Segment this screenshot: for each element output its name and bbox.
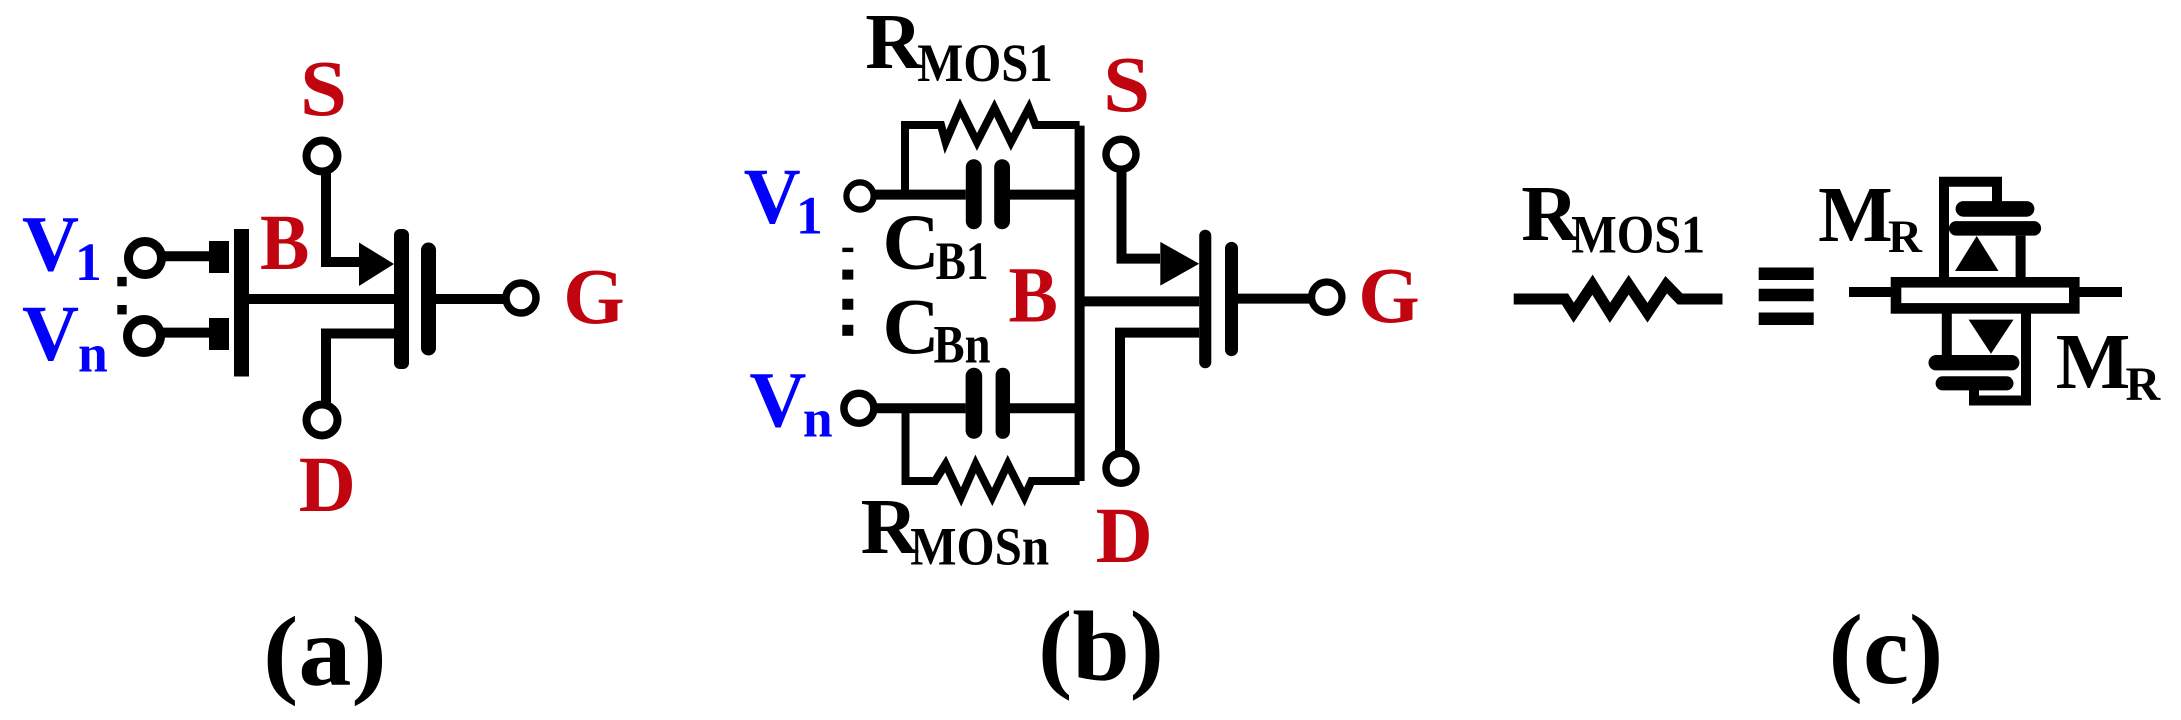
svg-text:G: G: [1358, 253, 1419, 340]
svg-text:D: D: [299, 442, 356, 529]
svg-text:V: V: [749, 358, 806, 445]
svg-text:C: C: [883, 284, 940, 371]
svg-text:MOSn: MOSn: [910, 517, 1049, 577]
svg-text:M: M: [2056, 319, 2131, 406]
svg-text:1: 1: [75, 232, 102, 292]
svg-text:MOS1: MOS1: [917, 33, 1053, 93]
svg-text:B1: B1: [936, 231, 989, 291]
svg-text:n: n: [78, 324, 108, 384]
svg-text:G: G: [563, 254, 624, 341]
svg-text:B: B: [260, 200, 309, 287]
svg-text:n: n: [803, 388, 833, 448]
svg-text:V: V: [22, 291, 79, 378]
svg-text:(b): (b): [1038, 591, 1164, 702]
svg-text:Bn: Bn: [934, 314, 991, 374]
svg-text:MOS1: MOS1: [1571, 205, 1705, 265]
svg-text:V: V: [22, 202, 79, 289]
svg-text:B: B: [1009, 253, 1058, 340]
svg-text:1: 1: [796, 186, 823, 246]
svg-text:C: C: [883, 200, 940, 287]
svg-text:M: M: [1818, 172, 1893, 259]
svg-text:R: R: [1888, 211, 1923, 263]
svg-text:(c): (c): [1829, 594, 1944, 705]
svg-text:S: S: [300, 46, 347, 133]
svg-text:R: R: [2126, 358, 2162, 411]
svg-text:D: D: [1096, 493, 1153, 580]
svg-text:(a): (a): [263, 596, 387, 707]
svg-text:R: R: [865, 0, 923, 86]
svg-text:S: S: [1103, 42, 1150, 129]
svg-text:V: V: [744, 154, 801, 241]
